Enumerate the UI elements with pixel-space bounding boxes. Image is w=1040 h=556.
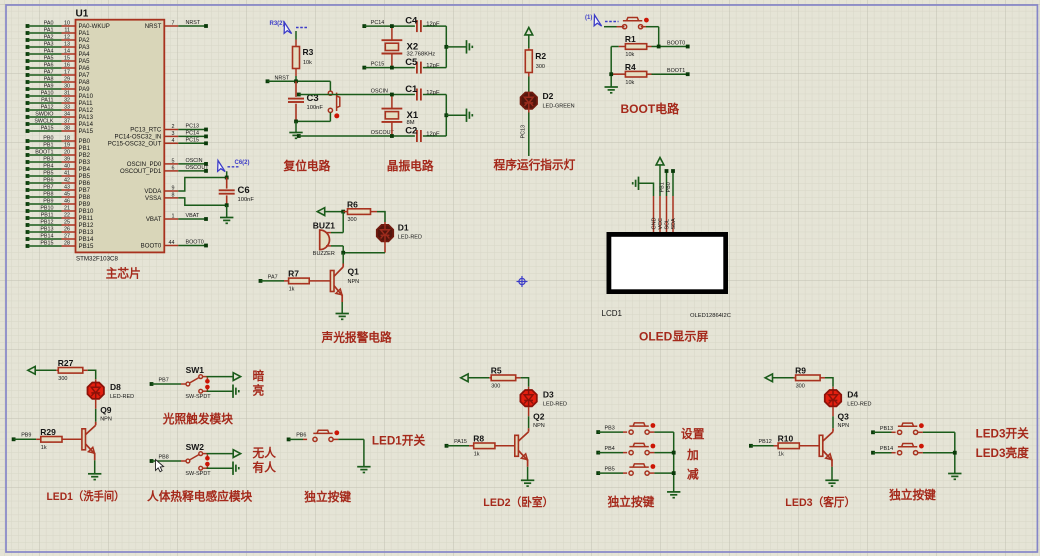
svg-text:PA9: PA9 — [79, 86, 91, 93]
resistor R5 300 — [489, 377, 491, 379]
OLED pins — [653, 196, 655, 232]
ground (crystal) — [444, 113, 448, 117]
svg-text:R3(2): R3(2) — [270, 21, 285, 27]
push button (PB5) — [598, 472, 623, 474]
LED D8 LED-RED — [95, 379, 97, 384]
svg-text:43: 43 — [64, 185, 70, 191]
svg-text:R4: R4 — [625, 62, 636, 72]
svg-text:PB6: PB6 — [296, 433, 306, 439]
node C6 top — [226, 171, 228, 177]
push button (PB4) — [598, 452, 623, 454]
capacitor C1 12pF — [416, 89, 418, 101]
svg-text:PA12: PA12 — [79, 107, 94, 114]
wire D1 bottom — [384, 242, 386, 253]
capacitor C3 100nF — [295, 81, 297, 97]
svg-text:22: 22 — [64, 213, 70, 219]
ground (PB6) — [363, 439, 365, 466]
svg-text:100nF: 100nF — [307, 105, 324, 111]
wire D2 to PC13 — [528, 110, 530, 113]
svg-text:Q2: Q2 — [533, 412, 545, 422]
mouse cursor — [156, 460, 164, 472]
wire top row — [364, 25, 415, 27]
svg-text:PC15-OSC32_OUT: PC15-OSC32_OUT — [108, 141, 162, 148]
svg-text:R10: R10 — [778, 434, 794, 444]
svg-text:OSCIN: OSCIN — [371, 88, 388, 94]
svg-text:PA15: PA15 — [454, 439, 467, 445]
svg-text:PB3: PB3 — [605, 426, 615, 432]
svg-text:38: 38 — [64, 126, 70, 132]
svg-text:300: 300 — [58, 376, 67, 382]
wire R27 to D8 — [88, 370, 96, 379]
ground (BOOT) — [605, 86, 618, 88]
svg-text:LED2（卧室）: LED2（卧室） — [483, 495, 553, 509]
svg-text:LED-RED: LED-RED — [543, 402, 567, 408]
svg-text:无人: 无人 — [253, 446, 277, 460]
pin 43 PB7 — [26, 188, 30, 192]
svg-text:暗: 暗 — [253, 369, 265, 383]
svg-text:PA1: PA1 — [79, 30, 91, 37]
LED D2 LED-GREEN — [521, 93, 537, 109]
svg-text:PB14: PB14 — [40, 234, 53, 240]
svg-text:PA4: PA4 — [79, 51, 91, 58]
svg-text:42: 42 — [64, 178, 70, 184]
svg-text:R27: R27 — [58, 358, 74, 368]
svg-text:LED3开关: LED3开关 — [976, 426, 1030, 440]
svg-text:PB9: PB9 — [21, 433, 31, 439]
pin 33 PA12 — [26, 108, 30, 112]
svg-text:10k: 10k — [625, 52, 634, 58]
svg-text:R29: R29 — [40, 427, 56, 437]
wire R6 to D1 — [377, 212, 385, 222]
svg-text:2: 2 — [172, 124, 175, 130]
svg-text:R5: R5 — [491, 366, 502, 376]
pin 13 PA3 — [26, 45, 30, 49]
svg-text:NPN: NPN — [838, 423, 850, 429]
node PB7 — [150, 382, 154, 386]
pin 28 PB15 — [26, 244, 30, 248]
svg-text:C2: C2 — [405, 126, 417, 137]
svg-text:PA2: PA2 — [44, 35, 54, 41]
svg-text:C5: C5 — [405, 57, 418, 68]
svg-text:PB7: PB7 — [159, 378, 169, 384]
wire R9 to D4 — [825, 378, 833, 387]
node PB1 / SCL — [666, 171, 668, 196]
svg-text:PA13: PA13 — [79, 114, 94, 121]
pin 16 PA6 — [26, 66, 30, 70]
pin 21 PB10 — [26, 209, 30, 213]
svg-text:PB8: PB8 — [79, 194, 91, 201]
node PB5 — [596, 471, 600, 475]
resistor R10 1k — [749, 444, 753, 448]
svg-text:独立按键: 独立按键 — [888, 488, 936, 502]
svg-text:BUZZER: BUZZER — [313, 251, 335, 257]
svg-text:PA9: PA9 — [44, 84, 54, 90]
svg-text:LED-RED: LED-RED — [398, 235, 422, 241]
svg-text:OSCIN_PD0: OSCIN_PD0 — [127, 161, 162, 168]
svg-text:PB10: PB10 — [40, 206, 53, 212]
wire common rail — [673, 432, 675, 492]
svg-text:独立按键: 独立按键 — [303, 490, 351, 504]
wire R5 to D3 — [521, 378, 529, 387]
svg-text:LED1开关: LED1开关 — [372, 434, 426, 448]
pin 6 OSCOUT_PD1 — [164, 170, 178, 172]
svg-text:PA3: PA3 — [44, 42, 54, 48]
svg-text:PB4: PB4 — [79, 166, 91, 173]
svg-text:40: 40 — [64, 164, 70, 170]
svg-text:300: 300 — [796, 383, 805, 389]
svg-text:PB12: PB12 — [759, 439, 772, 445]
wire throw 2 / ground — [203, 390, 207, 392]
svg-text:VCC: VCC — [658, 218, 664, 229]
svg-text:19: 19 — [64, 143, 70, 149]
svg-text:SWCLK: SWCLK — [34, 119, 54, 125]
svg-text:D8: D8 — [110, 382, 121, 392]
capacitor C2 12pF — [416, 130, 418, 142]
svg-text:300: 300 — [491, 383, 500, 389]
svg-text:27: 27 — [64, 234, 70, 240]
wire top row — [299, 94, 415, 96]
svg-text:设置: 设置 — [681, 427, 705, 441]
ground (Q1) — [341, 302, 343, 314]
ground (Q9) — [94, 460, 96, 474]
svg-text:300: 300 — [536, 64, 545, 70]
svg-text:39: 39 — [64, 157, 70, 163]
svg-text:PB0: PB0 — [666, 182, 672, 192]
power arrow (R2) — [525, 28, 533, 35]
svg-text:亮: 亮 — [253, 383, 265, 397]
svg-text:14: 14 — [64, 49, 70, 55]
svg-text:SCL: SCL — [665, 219, 671, 230]
svg-text:PA0: PA0 — [44, 21, 54, 27]
pin 20 BOOT1 — [26, 153, 30, 157]
wire C3 bottom — [296, 120, 330, 122]
node OSCIN — [297, 93, 301, 97]
resistor R3 10k — [295, 40, 297, 47]
node NRST — [266, 79, 270, 83]
pin 38 PA15 — [26, 129, 30, 133]
svg-text:PA7: PA7 — [44, 70, 54, 76]
svg-text:U1: U1 — [76, 9, 89, 20]
power arrow (R27) — [28, 366, 35, 374]
resistor R8 1k — [445, 444, 449, 448]
pin 42 PB6 — [26, 181, 30, 185]
pin 9 VDDA — [164, 190, 178, 192]
svg-text:主芯片: 主芯片 — [106, 267, 141, 281]
svg-text:OLED12864I2C: OLED12864I2C — [690, 313, 731, 319]
svg-text:人体热释电感应模块: 人体热释电感应模块 — [147, 489, 253, 503]
svg-text:PA6: PA6 — [79, 65, 91, 72]
power arrow (R5) — [461, 374, 468, 382]
svg-text:PB9: PB9 — [79, 201, 91, 208]
svg-text:PB15: PB15 — [79, 243, 95, 250]
svg-text:PB7: PB7 — [79, 187, 91, 194]
transistor Q3 NPN — [819, 435, 823, 456]
power arrow (OLED VCC) — [656, 158, 664, 165]
svg-text:41: 41 — [64, 171, 70, 177]
microcontroller U1 STM32F103C8 — [76, 20, 165, 253]
svg-text:PB2: PB2 — [79, 152, 91, 159]
svg-text:NPN: NPN — [100, 417, 112, 423]
svg-text:BOOT0: BOOT0 — [186, 240, 204, 246]
pin 25 PB12 — [26, 223, 30, 227]
svg-text:SDA: SDA — [671, 218, 677, 229]
node PB3 — [596, 430, 600, 434]
wire D3 to Q2 — [528, 407, 530, 416]
svg-text:PB8: PB8 — [159, 455, 169, 461]
svg-text:PB14: PB14 — [880, 446, 893, 452]
svg-text:PA11: PA11 — [41, 98, 53, 104]
wire R3 top — [295, 31, 297, 40]
svg-text:NRST: NRST — [275, 75, 290, 81]
capacitor C6 100nF — [226, 178, 228, 189]
svg-text:12pF: 12pF — [426, 63, 440, 69]
svg-text:LED3亮度: LED3亮度 — [976, 446, 1030, 460]
svg-text:16: 16 — [64, 63, 70, 69]
svg-text:4: 4 — [172, 138, 175, 144]
pin 7 NRST — [164, 25, 178, 27]
svg-text:VBAT: VBAT — [186, 213, 200, 219]
svg-text:1k: 1k — [289, 287, 295, 293]
svg-text:PC13: PC13 — [521, 125, 527, 139]
svg-text:PA10: PA10 — [41, 91, 54, 97]
svg-text:PA7: PA7 — [268, 274, 278, 280]
svg-text:PA0-WKUP: PA0-WKUP — [79, 23, 110, 30]
pin 46 PB9 — [26, 202, 30, 206]
power arrow (R9) — [765, 374, 772, 382]
svg-text:PB13: PB13 — [880, 426, 893, 432]
node PB4 — [596, 451, 600, 455]
push button (reset) — [329, 81, 331, 91]
LED D4 LED-RED — [832, 387, 834, 392]
svg-text:PA15: PA15 — [41, 126, 54, 132]
svg-text:46: 46 — [64, 199, 70, 205]
svg-text:PB6: PB6 — [43, 178, 53, 184]
ground (Q3) — [831, 467, 833, 481]
svg-text:PB5: PB5 — [605, 467, 615, 473]
svg-text:PA15: PA15 — [79, 128, 94, 135]
crystal X1 8M — [391, 95, 393, 109]
svg-text:PA11: PA11 — [79, 100, 94, 107]
wire buzzer top to R6 — [342, 212, 344, 233]
svg-text:7: 7 — [172, 21, 175, 27]
svg-text:PA7: PA7 — [79, 72, 91, 79]
wire VSSA to C6 — [178, 198, 226, 205]
pin 44 BOOT0 — [164, 245, 178, 247]
pin 26 PB13 — [26, 230, 30, 234]
pin 5 OSCIN_PD0 — [164, 163, 178, 165]
cursor C6(2) — [215, 161, 228, 174]
pin 17 PA7 — [26, 73, 30, 77]
svg-text:SW2: SW2 — [186, 442, 205, 452]
svg-text:1k: 1k — [778, 451, 784, 457]
svg-text:PB11: PB11 — [79, 215, 94, 222]
svg-text:12: 12 — [64, 35, 70, 41]
wire VDDA to C6 — [178, 178, 226, 192]
wire bottom row — [299, 135, 415, 137]
svg-text:PB3: PB3 — [79, 159, 91, 166]
wire right vertical — [445, 26, 447, 68]
svg-text:LCD1: LCD1 — [602, 309, 623, 318]
svg-text:33: 33 — [64, 105, 70, 111]
svg-text:18: 18 — [64, 136, 70, 142]
svg-text:9: 9 — [172, 186, 175, 192]
svg-text:LED3（客厅）: LED3（客厅） — [785, 495, 855, 509]
svg-text:NPN: NPN — [348, 279, 360, 285]
svg-text:BOOT1: BOOT1 — [35, 150, 53, 156]
svg-text:1: 1 — [172, 214, 175, 220]
push button (PB6) — [313, 437, 317, 441]
svg-text:17: 17 — [64, 70, 70, 76]
svg-text:PA14: PA14 — [79, 121, 94, 128]
wire PB7 to SW1 — [152, 383, 182, 385]
pin 22 PB11 — [26, 216, 30, 220]
svg-text:SW1: SW1 — [186, 365, 205, 375]
svg-text:复位电路: 复位电路 — [283, 159, 331, 173]
svg-text:PA8: PA8 — [44, 77, 54, 83]
svg-text:SW-SPDT: SW-SPDT — [185, 471, 211, 477]
wire rail — [611, 46, 619, 48]
pin 10 PA0 — [26, 24, 30, 28]
svg-text:PA5: PA5 — [79, 58, 91, 65]
svg-text:21: 21 — [64, 206, 70, 212]
svg-text:C6(2): C6(2) — [235, 160, 250, 166]
wire NRST row — [268, 80, 331, 82]
wire common rail (right) — [954, 432, 956, 473]
svg-text:D3: D3 — [543, 390, 554, 400]
pin 34 SWDIO — [26, 115, 30, 119]
svg-text:12pF: 12pF — [426, 90, 440, 96]
svg-text:PA10: PA10 — [79, 93, 94, 100]
svg-text:NPN: NPN — [533, 423, 545, 429]
svg-text:OLED显示屏: OLED显示屏 — [639, 330, 708, 344]
svg-text:PC14: PC14 — [186, 131, 200, 137]
wire button to BOOT0 — [658, 27, 660, 47]
svg-text:PA1: PA1 — [44, 28, 54, 34]
push button (PB3) — [598, 431, 623, 433]
svg-text:PB10: PB10 — [79, 208, 95, 215]
resistor R7 1k — [259, 279, 263, 283]
wire throw 1 / power arrow — [203, 376, 207, 378]
svg-text:Q9: Q9 — [100, 405, 112, 415]
ground (crystal) — [444, 45, 448, 49]
ground (C6) — [226, 205, 228, 217]
svg-text:OSCOUT_PD1: OSCOUT_PD1 — [120, 168, 162, 175]
svg-text:PB7: PB7 — [43, 185, 53, 191]
crystal X2 32.768KHz — [391, 26, 393, 40]
capacitor C4 12pF — [416, 20, 418, 32]
svg-text:晶振电路: 晶振电路 — [387, 159, 434, 173]
pin 30 PA9 — [26, 87, 30, 91]
svg-text:Q1: Q1 — [348, 267, 360, 277]
transistor Q1 NPN — [342, 253, 344, 264]
pin 15 PA5 — [26, 59, 30, 63]
pin 14 PA4 — [26, 52, 30, 56]
svg-text:PB1: PB1 — [660, 182, 666, 192]
svg-text:OSCOUT: OSCOUT — [186, 165, 210, 171]
svg-text:BUZ1: BUZ1 — [313, 220, 335, 230]
svg-text:PA4: PA4 — [44, 49, 54, 55]
svg-text:OSCIN: OSCIN — [186, 158, 203, 164]
resistor R9 300 — [794, 377, 796, 379]
svg-text:37: 37 — [64, 119, 70, 125]
pin 4 PC15-OSC32_OUT — [164, 142, 178, 144]
svg-text:300: 300 — [348, 217, 357, 223]
svg-text:声光报警电路: 声光报警电路 — [321, 331, 392, 345]
svg-text:减: 减 — [687, 467, 699, 481]
svg-text:D4: D4 — [847, 390, 858, 400]
ground (PB13-14) — [948, 473, 961, 475]
LED D3 LED-RED — [528, 387, 530, 392]
svg-text:31: 31 — [64, 91, 70, 97]
svg-text:PB5: PB5 — [43, 171, 53, 177]
svg-text:45: 45 — [64, 192, 70, 198]
svg-text:32: 32 — [64, 98, 70, 104]
LED D1 LED-RED — [384, 222, 386, 224]
svg-text:PB4: PB4 — [605, 446, 615, 452]
pin 45 PB8 — [26, 195, 30, 199]
svg-text:3: 3 — [172, 131, 175, 137]
node C6 bottom — [225, 203, 229, 207]
svg-text:R3: R3 — [303, 47, 314, 57]
pin 12 PA2 — [26, 38, 30, 42]
svg-text:BOOT电路: BOOT电路 — [621, 101, 681, 116]
svg-text:26: 26 — [64, 227, 70, 233]
push button (PB14) — [873, 452, 892, 454]
svg-text:SWDIO: SWDIO — [35, 112, 53, 118]
svg-text:C6: C6 — [238, 185, 250, 196]
pin 3 PC14-OSC32_IN — [164, 135, 178, 137]
wire buzzer bottom junction — [342, 246, 344, 253]
svg-text:PB0: PB0 — [79, 138, 91, 145]
svg-text:10: 10 — [64, 21, 70, 27]
node PC14 — [362, 24, 366, 28]
pin 18 PB0 — [26, 139, 30, 143]
pin 1 VBAT — [164, 218, 178, 220]
resistor R6 300 — [341, 210, 345, 214]
svg-text:25: 25 — [64, 220, 70, 226]
svg-text:NRST: NRST — [186, 20, 201, 26]
svg-text:12pF: 12pF — [426, 22, 440, 28]
svg-text:PB8: PB8 — [43, 192, 53, 198]
node PB8 — [150, 459, 154, 463]
svg-text:PA2: PA2 — [79, 37, 91, 44]
svg-text:PC14: PC14 — [371, 20, 385, 26]
svg-text:LED1（洗手间）: LED1（洗手间） — [47, 489, 125, 503]
svg-text:PA5: PA5 — [44, 56, 54, 62]
svg-text:PB14: PB14 — [79, 236, 95, 243]
svg-text:8: 8 — [172, 192, 175, 198]
node PB14 — [871, 451, 875, 455]
wire bottom row — [364, 67, 415, 69]
svg-text:44: 44 — [169, 240, 175, 246]
wire throw 2 / ground — [203, 467, 207, 469]
resistor R1 10k — [619, 46, 626, 48]
svg-text:PC15: PC15 — [186, 138, 200, 144]
svg-text:LED-RED: LED-RED — [110, 394, 134, 400]
svg-text:PB12: PB12 — [79, 222, 95, 229]
svg-text:13: 13 — [64, 42, 70, 48]
origin marker — [517, 276, 528, 287]
svg-text:有人: 有人 — [253, 460, 277, 474]
pin 31 PA10 — [26, 94, 30, 98]
wire D4 to Q3 — [832, 407, 834, 416]
svg-text:光照触发模块: 光照触发模块 — [162, 412, 233, 426]
svg-text:PC13: PC13 — [186, 124, 200, 130]
svg-text:PB0: PB0 — [43, 136, 53, 142]
svg-text:1k: 1k — [474, 451, 480, 457]
push button (PB13) — [873, 431, 892, 433]
svg-text:VBAT: VBAT — [146, 216, 162, 223]
